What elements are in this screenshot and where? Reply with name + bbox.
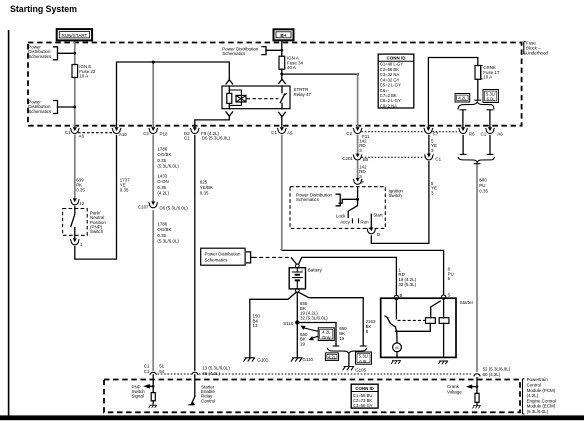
svg-text:F7: F7 xyxy=(433,132,439,137)
svg-text:RUN/START: RUN/START xyxy=(61,33,87,38)
svg-text:C2: C2 xyxy=(346,131,352,136)
svg-text:C1: C1 xyxy=(144,369,150,374)
svg-text:B6: B6 xyxy=(363,157,369,162)
svg-text:32 (5.3L): 32 (5.3L) xyxy=(398,282,416,287)
svg-text:G101: G101 xyxy=(257,358,268,363)
svg-text:A6: A6 xyxy=(79,133,85,138)
svg-text:C1: C1 xyxy=(481,132,487,137)
svg-text:1: 1 xyxy=(80,242,83,247)
svg-text:Voltage: Voltage xyxy=(447,390,462,395)
svg-text:625: 625 xyxy=(200,179,208,184)
svg-text:Starting System: Starting System xyxy=(10,4,77,14)
svg-text:3: 3 xyxy=(431,191,434,196)
svg-text:F: F xyxy=(361,180,364,185)
svg-text:A6: A6 xyxy=(497,132,503,137)
svg-text:Underhood: Underhood xyxy=(526,50,548,55)
svg-text:+: + xyxy=(301,268,303,272)
svg-text:OG/BK: OG/BK xyxy=(157,152,171,157)
svg-text:Schematics: Schematics xyxy=(205,257,229,262)
svg-text:S: S xyxy=(448,293,451,298)
svg-text:(4.2L): (4.2L) xyxy=(157,191,169,196)
svg-text:C3=56 GY: C3=56 GY xyxy=(353,403,373,408)
svg-text:Accy: Accy xyxy=(340,219,350,224)
svg-text:Only: Only xyxy=(322,335,332,340)
svg-text:D: D xyxy=(377,232,380,237)
svg-text:48 (4.2L): 48 (4.2L) xyxy=(202,371,220,376)
svg-text:S110: S110 xyxy=(283,321,294,326)
svg-text:Engine Control: Engine Control xyxy=(527,398,556,403)
svg-text:10 A: 10 A xyxy=(483,75,492,80)
svg-text:C1: C1 xyxy=(65,130,71,135)
svg-text:Starter: Starter xyxy=(460,300,474,305)
svg-text:CONN ID: CONN ID xyxy=(355,386,374,391)
svg-text:40 A: 40 A xyxy=(287,65,296,70)
svg-text:Start: Start xyxy=(373,213,383,218)
svg-text:D6 (5.3L/6.0L): D6 (5.3L/6.0L) xyxy=(202,135,231,140)
svg-text:C5=2 L-GY: C5=2 L-GY xyxy=(380,83,401,88)
svg-text:Schematics: Schematics xyxy=(28,109,52,114)
svg-text:0.35: 0.35 xyxy=(120,187,129,192)
svg-text:Battery: Battery xyxy=(308,268,323,273)
svg-text:G110: G110 xyxy=(303,357,314,362)
svg-text:3: 3 xyxy=(359,174,362,179)
svg-text:C201: C201 xyxy=(342,156,353,161)
svg-text:C1: C1 xyxy=(184,135,190,140)
svg-text:P10: P10 xyxy=(160,132,168,137)
svg-text:4.2L: 4.2L xyxy=(458,96,467,101)
svg-text:800: 800 xyxy=(479,178,487,183)
svg-text:Power Distribution: Power Distribution xyxy=(205,252,242,257)
svg-text:D6 (5.3L/6.0L): D6 (5.3L/6.0L) xyxy=(159,205,188,210)
svg-text:(5.3L/6.0L): (5.3L/6.0L) xyxy=(157,239,179,244)
svg-text:C2: C2 xyxy=(143,131,149,136)
svg-text:6.0L: 6.0L xyxy=(487,97,496,102)
svg-text:B: B xyxy=(400,293,403,298)
svg-text:YE/BK: YE/BK xyxy=(200,185,213,190)
svg-text:C1: C1 xyxy=(271,130,277,135)
svg-text:8: 8 xyxy=(366,329,369,334)
svg-text:C1: C1 xyxy=(435,157,441,162)
svg-text:A10: A10 xyxy=(119,132,127,137)
svg-text:32 (5.3L/6.0L): 32 (5.3L/6.0L) xyxy=(300,315,328,320)
svg-text:0.35: 0.35 xyxy=(479,188,488,193)
svg-text:Module (ECM): Module (ECM) xyxy=(527,404,556,409)
svg-text:R6: R6 xyxy=(469,132,475,137)
svg-text:0.35: 0.35 xyxy=(200,191,209,196)
svg-text:B+: B+ xyxy=(280,33,286,39)
svg-text:1786: 1786 xyxy=(157,221,167,226)
svg-text:Relay 47: Relay 47 xyxy=(294,92,312,97)
svg-text:1786: 1786 xyxy=(157,146,167,151)
svg-text:19: 19 xyxy=(300,342,305,347)
svg-text:Switch: Switch xyxy=(389,193,403,198)
svg-text:Schematics: Schematics xyxy=(222,51,246,56)
svg-text:G105: G105 xyxy=(355,368,366,373)
svg-text:10 A: 10 A xyxy=(79,74,88,79)
svg-text:Schematics: Schematics xyxy=(296,197,320,202)
svg-text:(5.3L/6.0L): (5.3L/6.0L) xyxy=(527,409,549,414)
svg-text:52 (5.3L/6.0L): 52 (5.3L/6.0L) xyxy=(483,366,511,371)
svg-text:Schematics: Schematics xyxy=(28,54,52,59)
svg-text:C2=68 BK: C2=68 BK xyxy=(380,67,399,72)
svg-text:CONN ID: CONN ID xyxy=(387,56,407,61)
svg-text:13 (5.3L/6.0L): 13 (5.3L/6.0L) xyxy=(202,365,230,370)
svg-text:Lock: Lock xyxy=(336,214,346,219)
svg-text:Crank: Crank xyxy=(447,384,460,389)
svg-text:0.35: 0.35 xyxy=(157,158,166,163)
svg-text:Signal: Signal xyxy=(132,394,144,399)
svg-text:Powertrain: Powertrain xyxy=(527,377,549,382)
svg-text:(4.2L): (4.2L) xyxy=(527,393,539,398)
svg-text:Module (PCM): Module (PCM) xyxy=(527,388,556,393)
svg-text:M: M xyxy=(395,346,398,350)
svg-text:Control: Control xyxy=(527,383,541,388)
svg-text:13: 13 xyxy=(253,323,258,328)
svg-text:C107: C107 xyxy=(138,205,149,210)
svg-text:1433: 1433 xyxy=(157,173,167,178)
svg-text:D-GN: D-GN xyxy=(157,179,168,184)
svg-text:54: 54 xyxy=(159,369,164,374)
svg-text:C9=2 NA: C9=2 NA xyxy=(380,103,397,108)
svg-text:4.2L: 4.2L xyxy=(328,354,337,359)
svg-text:PU: PU xyxy=(479,183,485,188)
svg-text:0.35: 0.35 xyxy=(157,233,166,238)
svg-text:3: 3 xyxy=(359,148,362,153)
svg-text:12: 12 xyxy=(79,201,84,206)
svg-text:Run: Run xyxy=(360,220,369,225)
svg-text:Control: Control xyxy=(201,398,215,403)
svg-text:A9: A9 xyxy=(287,130,293,135)
svg-text:3: 3 xyxy=(431,148,434,153)
svg-text:19: 19 xyxy=(339,336,344,341)
svg-text:Switch: Switch xyxy=(90,229,104,234)
svg-text:5: 5 xyxy=(448,276,451,281)
svg-text:0.35: 0.35 xyxy=(76,187,85,192)
svg-text:6.0L: 6.0L xyxy=(359,359,368,364)
svg-text:OG/BK: OG/BK xyxy=(157,227,171,232)
svg-text:(5.3L/6.0L): (5.3L/6.0L) xyxy=(157,164,179,169)
svg-text:60 (4.2L): 60 (4.2L) xyxy=(483,372,501,377)
svg-text:0.35: 0.35 xyxy=(157,185,166,190)
